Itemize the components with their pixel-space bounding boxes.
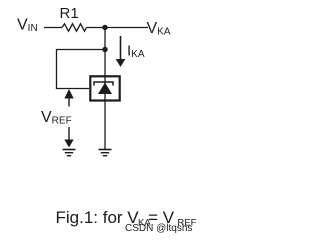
wire resistor to VKA: [87, 27, 149, 29]
voltage arrow VREF down: [68, 127, 70, 141]
svg-text:VKA: VKA: [147, 20, 171, 38]
current arrow IKA: [120, 36, 122, 60]
svg-text:R1: R1: [60, 5, 79, 22]
TL431 cathode bar: [94, 82, 113, 86]
junction dot feedback: [102, 47, 107, 52]
wire input to resistor: [44, 27, 62, 29]
svg-text:CSDN @ltqshs: CSDN @ltqshs: [125, 223, 192, 234]
svg-text:IKA: IKA: [127, 43, 145, 61]
svg-text:VIN: VIN: [17, 17, 38, 35]
svg-text:VREF: VREF: [41, 109, 72, 127]
voltage arrow VREF up: [64, 89, 73, 99]
wire feedback loop to REF pin: [57, 50, 106, 89]
shunt regulator U1 box: [90, 76, 119, 100]
ground left: [63, 150, 76, 156]
node K junction dot: [102, 25, 107, 30]
TL431 diode triangle: [98, 83, 112, 95]
resistor R1: [62, 24, 87, 31]
ground right: [99, 150, 112, 156]
wire cathode-anode vertical: [104, 28, 106, 150]
